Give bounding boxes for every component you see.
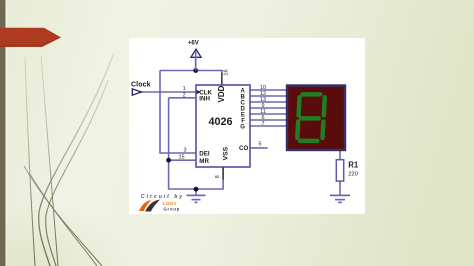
- svg-text:1: 1: [183, 86, 186, 92]
- svg-text:220: 220: [348, 172, 358, 178]
- svg-text:R1: R1: [348, 160, 359, 169]
- svg-text:+6V: +6V: [188, 41, 199, 47]
- svg-text:8: 8: [215, 175, 221, 178]
- svg-text:G: G: [240, 124, 245, 130]
- svg-text:CO: CO: [239, 145, 248, 152]
- svg-text:3: 3: [183, 147, 186, 153]
- svg-text:VDD: VDD: [217, 85, 226, 102]
- svg-text:7: 7: [261, 121, 264, 127]
- svg-text:4026: 4026: [208, 116, 232, 128]
- svg-text:VSS: VSS: [222, 146, 229, 160]
- svg-text:Circuit by: Circuit by: [141, 194, 184, 200]
- svg-text:5: 5: [258, 141, 261, 147]
- svg-text:LGGY: LGGY: [163, 201, 177, 206]
- svg-text:Clock: Clock: [131, 81, 151, 88]
- svg-text:15: 15: [178, 155, 184, 161]
- svg-text:INH: INH: [199, 95, 210, 102]
- svg-text:DEI: DEI: [199, 151, 210, 158]
- svg-text:2: 2: [183, 92, 186, 98]
- svg-text:MR: MR: [199, 158, 209, 165]
- svg-text:16: 16: [223, 69, 229, 75]
- svg-text:Group: Group: [164, 207, 181, 212]
